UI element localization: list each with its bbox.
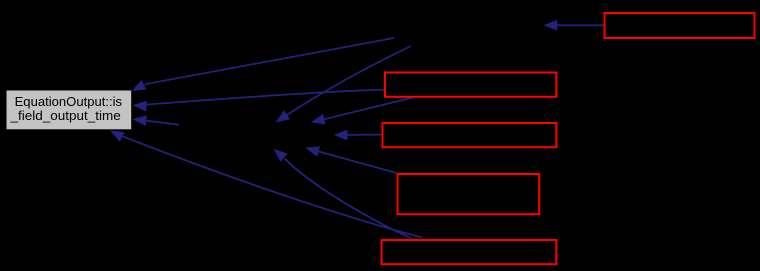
wire: edge from hidden node to EquationOutput::is_field_output_time (top arrow) [132, 38, 394, 91]
wire: edge from red box 4 top-left corner to hidden middle node [305, 146, 396, 173]
node: truncated caller box 2 (red border) [385, 73, 556, 97]
node: EquationOutput::is_field_output_time (current function, gray) [7, 91, 132, 130]
node: truncated caller box 1 (top right, red border) [605, 13, 755, 38]
wire: edge from node 2 (top-right red box) to hidden node, arrowhead [544, 20, 604, 31]
wire: edge from red box 2 bottom edge to hidden middle node [311, 97, 415, 124]
wire: short horizontal edge from red box 3 to hidden middle node [334, 130, 382, 141]
wire: long shallow edge from red box 2 to EquationOutput::is_field_output_time [133, 90, 384, 112]
node: truncated caller box 3 (red border) [383, 123, 557, 147]
wire: long curved edge from red box 5 to EquationOutput::is_field_output_time bottom [110, 131, 422, 238]
svg-text:EquationOutput::is: EquationOutput::is [15, 94, 123, 109]
wire: curved edge from red box 5 to hidden middle node [274, 149, 413, 239]
node: truncated caller box 5 (bottom, red border) [382, 240, 557, 264]
wire: short edge from hidden node to EquationOutput::is_field_output_time [133, 115, 180, 126]
svg-text:_field_output_time: _field_output_time [9, 108, 120, 123]
wire: edge from hidden node to hidden middle node (arrow ends mid-canvas) [276, 46, 412, 122]
node: truncated caller box 4 (red border, two-line) [398, 174, 540, 214]
